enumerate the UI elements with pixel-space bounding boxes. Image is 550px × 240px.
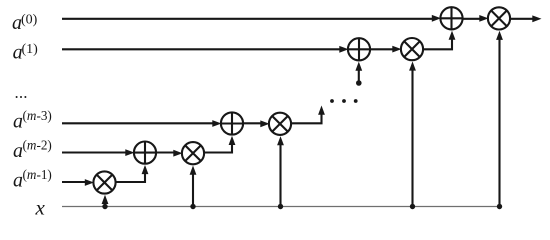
- arrowhead output: [532, 15, 541, 22]
- arrowhead riser into M1b: [409, 61, 416, 70]
- label a(m-3): [13, 108, 52, 132]
- adder A2: [134, 142, 156, 164]
- arrowhead into A1 bottom: [355, 62, 362, 71]
- multiplier M3: [269, 113, 291, 135]
- wire A0 to M0: [463, 18, 481, 20]
- svg-text:(m-3): (m-3): [23, 108, 52, 123]
- svg-text:(m-1): (m-1): [23, 167, 52, 182]
- svg-text:(1): (1): [22, 42, 39, 57]
- node dot x-M2: [190, 204, 195, 209]
- wire M0 output: [510, 18, 534, 20]
- node dot x-M0: [497, 204, 502, 209]
- wire row a(0): [62, 18, 432, 20]
- arrowhead M1b elbow into A0: [449, 31, 456, 40]
- node dot x-M1b: [410, 204, 415, 209]
- wire riser x to M0: [498, 36, 500, 207]
- label a(1): [13, 42, 39, 64]
- wire row a(1): [62, 48, 340, 50]
- arrowhead riser into M1: [102, 195, 109, 204]
- arrowhead M3 elbow up: [318, 106, 325, 115]
- wire row a(m-1): [62, 181, 85, 183]
- multiplier M1b: [401, 38, 423, 60]
- svg-text:x: x: [35, 196, 46, 220]
- wire riser x to M3: [279, 140, 281, 207]
- arrowhead into A1: [339, 46, 348, 53]
- svg-text:(m-2): (m-2): [23, 138, 52, 153]
- arrowhead A2-M2: [173, 150, 182, 157]
- label a(m-2): [13, 138, 52, 162]
- node dot x-M3: [278, 204, 283, 209]
- svg-text:a: a: [13, 111, 23, 133]
- wire riser x to M2: [192, 169, 194, 207]
- wire riser x to M1b: [411, 66, 413, 207]
- wire riser x to M1: [104, 199, 106, 207]
- adder A1: [348, 38, 370, 60]
- svg-text:a: a: [13, 170, 23, 192]
- label a(0): [12, 12, 38, 34]
- wire junction dot to A1: [358, 66, 360, 83]
- wire row a(m-2): [62, 151, 126, 153]
- adder A3: [221, 112, 243, 134]
- wire M1 elbow to A2: [116, 169, 145, 182]
- node dot x-M1: [102, 204, 107, 209]
- arrowhead into A0: [432, 15, 441, 22]
- junction dot below A1: [356, 80, 362, 86]
- arrowhead into A2: [125, 149, 134, 156]
- svg-text:(0): (0): [21, 13, 38, 28]
- multiplier M2: [182, 142, 204, 164]
- arrowhead M1 elbow into A2: [142, 165, 149, 174]
- wire M1b elbow to A0: [423, 36, 452, 50]
- arrowhead riser into M0: [496, 31, 503, 40]
- arrowhead A3-M3: [260, 120, 269, 127]
- adder A0: [440, 7, 462, 29]
- multiplier M0: [488, 7, 510, 29]
- arrowhead into M1: [85, 179, 94, 186]
- label a(m-1): [13, 167, 52, 191]
- arrowhead A0-M0: [479, 15, 488, 22]
- arrowhead riser into M2: [190, 166, 197, 175]
- arrowhead M2 elbow into A3: [229, 136, 236, 145]
- label ellipsis left: [16, 96, 27, 98]
- arrowhead into A3: [212, 120, 221, 127]
- wire M3 elbow up to dots: [291, 110, 321, 123]
- multiplier M1: [93, 171, 115, 193]
- wire M2 elbow to A3: [204, 140, 232, 153]
- arrowhead riser into M3: [277, 136, 284, 145]
- wire A3 to M3: [243, 122, 262, 124]
- wire x input line: [62, 206, 500, 208]
- ellipsis dots middle: [330, 99, 334, 103]
- wire A2 to M2: [156, 151, 175, 153]
- wire A1 to M1b: [370, 48, 394, 50]
- arrowhead A1-M1b: [392, 46, 401, 53]
- svg-text:a: a: [13, 140, 23, 162]
- wire row a(m-3): [62, 122, 213, 124]
